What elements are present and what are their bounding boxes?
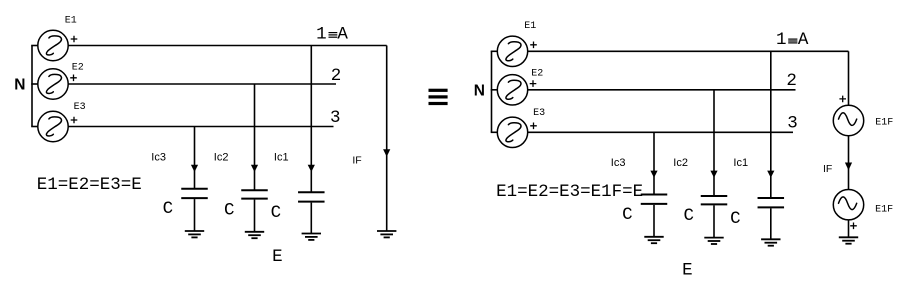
wire phase 1 (right) <box>528 50 849 52</box>
wire E1F to ground <box>848 220 850 237</box>
svg-text:E1=E2=E3=E1F=E: E1=E2=E3=E1F=E <box>496 182 643 202</box>
wire between E1F sources <box>848 136 850 190</box>
wire phase 2 <box>68 83 336 85</box>
capacitor C (Ic1 branch, right) with ground <box>758 197 785 199</box>
svg-text:1: 1 <box>776 30 787 50</box>
source E1F (lower) <box>833 190 863 220</box>
wire branch Ic2 (right) <box>713 90 715 196</box>
source E3 polarity + <box>71 117 78 124</box>
source E3 <box>38 111 68 141</box>
equivalence symbol <box>429 89 448 105</box>
current arrow IF <box>383 149 390 157</box>
wire branch Ic3 <box>194 127 196 189</box>
node N bus wire <box>31 46 33 127</box>
wire branch Ic1 <box>310 46 312 193</box>
current arrow Ic1 (right) <box>767 171 774 178</box>
svg-text:C: C <box>730 209 741 229</box>
svg-text:E3: E3 <box>533 108 545 119</box>
capacitor C (Ic3 branch, right) with ground <box>641 194 668 196</box>
source E3 (right) <box>497 117 527 147</box>
svg-text:N: N <box>14 77 25 94</box>
source E2 <box>38 69 68 99</box>
svg-text:E1F: E1F <box>875 117 893 128</box>
svg-text:IF: IF <box>352 154 361 166</box>
current arrow Ic3 <box>191 165 198 172</box>
wire N to E2 (right) <box>491 89 498 91</box>
svg-text:C: C <box>163 199 174 219</box>
source E1F (upper) <box>833 105 863 135</box>
svg-text:E3: E3 <box>74 102 86 113</box>
svg-text:C: C <box>271 203 282 223</box>
current arrow Ic2 (right) <box>710 171 717 178</box>
current arrow Ic3 (right) <box>650 171 657 178</box>
ground (fault branch, right) <box>839 236 858 238</box>
svg-text:N: N <box>474 82 485 99</box>
svg-text:Ic2: Ic2 <box>214 151 229 163</box>
svg-text:1: 1 <box>316 25 327 45</box>
source E1 polarity + <box>71 36 78 43</box>
svg-text:E: E <box>272 247 283 267</box>
svg-text:Ic1: Ic1 <box>733 157 748 169</box>
svg-text:Ic1: Ic1 <box>274 151 289 163</box>
source E1 (right) <box>497 36 527 66</box>
svg-text:Ic2: Ic2 <box>673 157 688 169</box>
svg-text:E1=E2=E3=E: E1=E2=E3=E <box>37 175 142 195</box>
wire N to E1 <box>31 45 38 47</box>
wire phase 3 (right) <box>528 131 793 133</box>
wire N to E2 <box>31 83 38 85</box>
source E2 polarity + (right) <box>530 80 537 87</box>
svg-text:3: 3 <box>787 114 798 134</box>
wire phase 1 <box>68 45 387 47</box>
wire branch Ic1 (right) <box>770 51 772 198</box>
svg-text:E2: E2 <box>531 68 543 79</box>
svg-text:2: 2 <box>786 71 797 91</box>
capacitor C (Ic2 branch, right) with ground <box>701 195 728 197</box>
wire phase 3 <box>68 126 333 128</box>
node N bus wire (right) <box>491 51 493 132</box>
svg-text:C: C <box>684 206 695 226</box>
wire branch Ic3 (right) <box>653 132 655 194</box>
svg-text:E1F: E1F <box>875 204 893 215</box>
source E3 polarity + (right) <box>530 123 537 130</box>
source E2 polarity + <box>70 75 77 82</box>
svg-text:E1: E1 <box>65 15 77 26</box>
svg-text:Ic3: Ic3 <box>151 151 166 163</box>
wire N to E1 (right) <box>491 50 498 52</box>
ground (fault branch) <box>377 230 396 232</box>
source E2 (right) <box>497 75 527 105</box>
svg-text:2: 2 <box>331 66 342 86</box>
source E1 <box>38 30 68 60</box>
wire N to E3 (right) <box>491 131 498 133</box>
svg-text:A: A <box>337 25 348 45</box>
current arrow IF (right) <box>845 163 852 171</box>
wire branch Ic2 <box>254 84 256 190</box>
current arrow Ic1 <box>308 165 315 172</box>
capacitor C (Ic2 branch) with ground <box>241 189 268 191</box>
wire fault branch IF <box>386 46 388 232</box>
wire phase 1 down to source E1F <box>848 51 850 105</box>
source E1F upper polarity + <box>839 96 846 103</box>
svg-text:C: C <box>622 205 633 225</box>
source E1F lower polarity + <box>850 223 857 230</box>
svg-text:Ic3: Ic3 <box>611 157 626 169</box>
capacitor C (Ic3 branch) with ground <box>181 188 208 190</box>
svg-text:E: E <box>682 261 693 281</box>
capacitor C (Ic1 branch) with ground <box>298 191 325 193</box>
wire phase 2 (right) <box>528 89 796 91</box>
svg-text:C: C <box>224 200 235 220</box>
svg-text:E1: E1 <box>524 21 536 32</box>
svg-text:A: A <box>798 30 809 50</box>
svg-text:E2: E2 <box>72 63 84 74</box>
wire N to E3 <box>31 126 38 128</box>
svg-text:3: 3 <box>330 108 341 128</box>
source E1 polarity + (right) <box>530 42 537 49</box>
current arrow Ic2 <box>251 165 258 172</box>
svg-text:IF: IF <box>823 163 832 175</box>
